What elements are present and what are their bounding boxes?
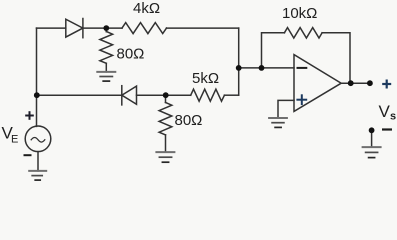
- svg-text:s: s: [390, 111, 396, 123]
- wire to inverting input: [239, 67, 294, 69]
- resistor 5kΩ: [191, 89, 225, 101]
- plus sign (output): [382, 80, 391, 89]
- wire Vs negative terminal stem: [371, 131, 373, 147]
- wire D2 to node: [137, 94, 191, 96]
- op-amp plus sign: [297, 95, 306, 104]
- op-amp U1: [294, 55, 341, 112]
- ground (80Ω lower): [156, 152, 174, 162]
- op-amp minus sign: [298, 67, 307, 69]
- svg-text:E: E: [11, 134, 18, 146]
- svg-text:80Ω: 80Ω: [175, 112, 203, 129]
- wire R5k to junction: [224, 94, 238, 96]
- ground (80Ω upper): [97, 72, 115, 81]
- svg-text:4kΩ: 4kΩ: [133, 0, 160, 17]
- node F (output/feedback): [348, 80, 354, 86]
- svg-text:5kΩ: 5kΩ: [192, 70, 219, 87]
- wire top row left: [37, 27, 66, 29]
- node H (Vs - terminal): [369, 127, 375, 133]
- resistor 80Ω upper: [100, 28, 113, 72]
- ground (op-amp + input): [269, 118, 287, 127]
- diode D2: [122, 86, 137, 105]
- wire output: [341, 82, 370, 84]
- wire left vertical: [36, 28, 38, 126]
- svg-text:80Ω: 80Ω: [117, 46, 145, 63]
- node A (top, D1/R4k/R80): [103, 25, 109, 31]
- minus sign (VE): [24, 154, 32, 156]
- node C (D2/R5k/R80): [163, 92, 169, 98]
- source VE: [25, 126, 51, 152]
- wire vertical junction: [238, 28, 240, 95]
- wire second row left: [37, 94, 122, 96]
- node B (left, VE/D2 row): [34, 92, 40, 98]
- svg-text:V: V: [379, 102, 391, 121]
- node G (output + terminal): [367, 80, 373, 86]
- node E (feedback tap): [259, 65, 265, 71]
- resistor 80Ω lower: [159, 95, 172, 152]
- wire D1 to R 4k: [83, 27, 122, 29]
- resistor 4kΩ: [122, 23, 167, 34]
- resistor 10kΩ: [284, 28, 322, 38]
- node D (summing junction): [236, 65, 242, 71]
- wire R4k to corner: [167, 27, 239, 29]
- minus sign (Vs): [382, 128, 392, 130]
- ground (Vs terminal): [363, 147, 381, 158]
- svg-text:10kΩ: 10kΩ: [282, 5, 317, 22]
- ground (VE): [29, 171, 46, 180]
- wire VE to ground: [37, 152, 39, 171]
- wire feedback loop: [262, 33, 285, 68]
- diode D1: [66, 19, 83, 38]
- plus sign (VE): [25, 111, 34, 120]
- wire non-inverting input: [278, 100, 294, 118]
- wire feedback right: [322, 33, 350, 83]
